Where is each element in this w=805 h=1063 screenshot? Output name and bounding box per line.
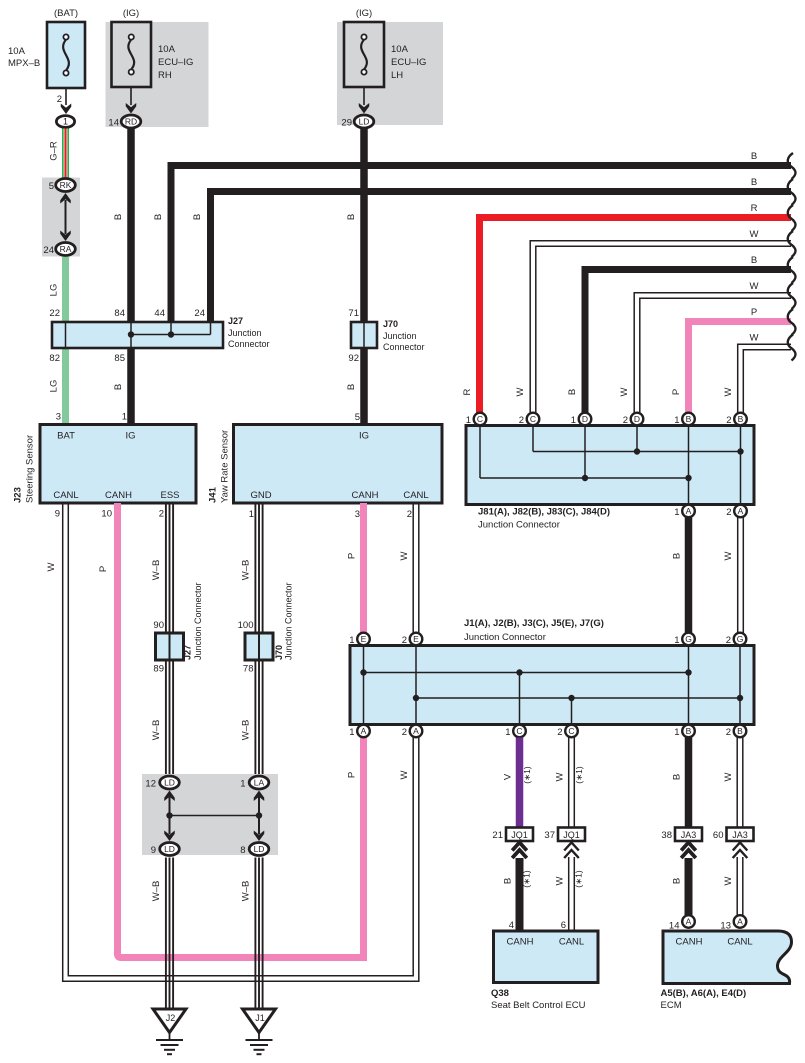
svg-text:W: W bbox=[723, 772, 734, 781]
svg-text:B: B bbox=[503, 878, 514, 884]
wire W JQ1 37 to Q38 CANL pin 6 bbox=[555, 857, 584, 931]
svg-text:B: B bbox=[567, 389, 578, 395]
wire break squiggles at right edge bbox=[788, 153, 796, 361]
svg-text:Junction Connector: Junction Connector bbox=[193, 582, 203, 660]
svg-text:W: W bbox=[555, 876, 566, 885]
wire W JA3 60 to ECM CANL pin 13A bbox=[723, 857, 743, 916]
wire W-B steering ESS pin 2 to J27 small connector bbox=[151, 503, 173, 633]
svg-text:(∗1): (∗1) bbox=[522, 870, 532, 888]
ECM pin 14 A bbox=[669, 915, 695, 931]
connector oval RD bbox=[121, 115, 141, 128]
svg-text:P: P bbox=[751, 307, 757, 318]
svg-text:P: P bbox=[98, 566, 109, 572]
svg-text:37: 37 bbox=[544, 830, 555, 841]
svg-text:LG: LG bbox=[49, 380, 60, 393]
svg-text:RH: RH bbox=[158, 70, 172, 81]
svg-text:1: 1 bbox=[571, 415, 576, 426]
svg-text:2: 2 bbox=[726, 415, 731, 426]
svg-text:B: B bbox=[113, 384, 124, 390]
connector oval LA pin 1 bbox=[240, 776, 269, 790]
svg-text:B: B bbox=[686, 726, 692, 736]
svg-text:1: 1 bbox=[505, 727, 510, 738]
svg-text:D: D bbox=[634, 414, 640, 424]
J81 pin 2B bbox=[726, 413, 747, 426]
svg-text:G: G bbox=[737, 634, 744, 644]
svg-text:E: E bbox=[413, 634, 419, 644]
svg-text:W: W bbox=[399, 551, 410, 560]
wire W-B J27 small to LD 12 bbox=[151, 660, 173, 774]
junction connector J70 small bbox=[238, 582, 294, 674]
svg-text:B: B bbox=[346, 384, 357, 390]
svg-text:Steering Sensor: Steering Sensor bbox=[25, 435, 36, 503]
svg-text:Junction Connector: Junction Connector bbox=[284, 582, 294, 660]
svg-text:W: W bbox=[619, 387, 630, 396]
arrow into JQ1 21 bbox=[512, 843, 527, 859]
junction connector J81(A) J82(B) J83(C) J84(D) bbox=[466, 426, 754, 531]
svg-text:JQ1: JQ1 bbox=[563, 830, 580, 840]
arrow into JA3 38 bbox=[681, 843, 696, 859]
svg-text:C: C bbox=[530, 414, 536, 424]
svg-text:IG: IG bbox=[125, 431, 135, 442]
svg-text:(IG): (IG) bbox=[356, 8, 372, 19]
wire B JA3 38 to ECM CANH pin 14A bbox=[672, 858, 689, 916]
svg-text:B: B bbox=[672, 774, 683, 780]
gray panel ECU-IG RH bbox=[106, 22, 209, 127]
svg-text:1: 1 bbox=[674, 415, 679, 426]
svg-text:RA: RA bbox=[60, 244, 72, 254]
svg-text:1: 1 bbox=[674, 635, 679, 646]
wire W from right edge to J81 pin 2B bbox=[723, 333, 791, 414]
svg-text:LD: LD bbox=[254, 844, 265, 854]
svg-text:C: C bbox=[568, 726, 574, 736]
J81 pin 1A bbox=[674, 505, 695, 518]
svg-text:82: 82 bbox=[49, 353, 60, 364]
svg-text:1: 1 bbox=[63, 117, 68, 127]
svg-text:2: 2 bbox=[402, 635, 407, 646]
svg-text:2: 2 bbox=[57, 94, 62, 105]
svg-text:W–B: W–B bbox=[151, 560, 162, 581]
svg-text:Junction Connector: Junction Connector bbox=[464, 632, 546, 643]
svg-text:1: 1 bbox=[122, 412, 127, 423]
svg-text:84: 84 bbox=[114, 308, 125, 319]
arrow into JA3 60 bbox=[733, 843, 748, 859]
wire B J1 pin 1B to JA3 38 bbox=[672, 738, 689, 828]
svg-text:LD: LD bbox=[164, 844, 175, 854]
svg-text:R: R bbox=[462, 388, 473, 395]
gray panel RK-RA connectors bbox=[42, 178, 80, 257]
wire P up to J1 pin 1A bbox=[347, 738, 364, 962]
svg-text:Connector: Connector bbox=[383, 342, 425, 352]
svg-text:44: 44 bbox=[154, 308, 165, 319]
svg-text:90: 90 bbox=[153, 620, 164, 631]
J81 pin 1D bbox=[571, 413, 592, 426]
wire W-B LD 8 to ground J1 bbox=[241, 858, 263, 1011]
connector oval RK pin 5 bbox=[49, 179, 76, 193]
svg-text:CANL: CANL bbox=[559, 937, 584, 948]
gray panel ECU-IG LH bbox=[337, 22, 443, 125]
svg-text:2: 2 bbox=[557, 727, 562, 738]
wire LG from J27 pin 82 to steering sensor BAT pin 3 bbox=[49, 349, 66, 424]
wire R from right edge to J81 pin 1C bbox=[462, 203, 791, 413]
svg-text:J41: J41 bbox=[208, 486, 219, 503]
wire B from LD 29 to J70 pin 71 bbox=[346, 129, 364, 322]
svg-text:Connector: Connector bbox=[228, 339, 270, 349]
svg-text:(IG): (IG) bbox=[123, 8, 139, 19]
svg-text:92: 92 bbox=[348, 353, 359, 364]
ground J2 bbox=[153, 1009, 186, 1054]
svg-text:J2: J2 bbox=[166, 1013, 176, 1023]
svg-text:ECM: ECM bbox=[661, 1000, 682, 1011]
wire fuse MPX-B to connector, pin 2 bbox=[57, 88, 72, 114]
svg-text:W–B: W–B bbox=[241, 560, 252, 581]
svg-text:A: A bbox=[737, 917, 743, 927]
svg-text:CANH: CANH bbox=[105, 490, 132, 501]
wire W J1 pin 2C to JQ1 37 bbox=[555, 738, 585, 828]
svg-text:A: A bbox=[361, 726, 367, 736]
J1 pin 2G bbox=[726, 633, 747, 646]
svg-text:LA: LA bbox=[254, 778, 265, 788]
svg-text:1: 1 bbox=[240, 779, 245, 790]
svg-text:5: 5 bbox=[49, 181, 54, 192]
svg-text:(∗1): (∗1) bbox=[574, 766, 584, 784]
arrow link RK to RA bbox=[60, 193, 71, 241]
wire B horizontal 1 to J27 pin 44 bbox=[153, 151, 791, 321]
svg-text:B: B bbox=[672, 553, 683, 559]
ECU J41 Yaw Rate Sensor bbox=[208, 425, 443, 504]
svg-text:29: 29 bbox=[341, 118, 352, 129]
svg-text:IG: IG bbox=[359, 431, 369, 442]
wire G-R from oval 1 to RK bbox=[49, 129, 67, 179]
svg-text:B: B bbox=[751, 177, 757, 188]
svg-text:100: 100 bbox=[238, 620, 254, 631]
svg-text:JA3: JA3 bbox=[681, 830, 697, 840]
svg-text:ECU–IG: ECU–IG bbox=[158, 57, 193, 68]
wire B JQ1 21 to Q38 CANH pin 4 bbox=[503, 858, 532, 931]
svg-text:A: A bbox=[738, 506, 744, 516]
svg-text:2: 2 bbox=[402, 727, 407, 738]
connector JA3 60 bbox=[713, 828, 754, 842]
wire P steering CANH to J1 pin 1A via bottom run bbox=[98, 503, 367, 958]
wire B horizontal 2 to J27 pin 24 bbox=[192, 177, 791, 321]
svg-text:B: B bbox=[751, 151, 757, 162]
svg-text:W: W bbox=[46, 562, 57, 571]
svg-text:B: B bbox=[192, 214, 203, 220]
fuse ECU-IG RH 10A (IG) bbox=[112, 8, 194, 87]
J81 pin 2C bbox=[519, 413, 540, 426]
svg-text:9: 9 bbox=[55, 509, 60, 520]
svg-text:V: V bbox=[503, 773, 514, 780]
svg-text:B: B bbox=[346, 214, 357, 220]
svg-text:89: 89 bbox=[153, 664, 164, 675]
svg-text:24: 24 bbox=[194, 308, 205, 319]
svg-text:B: B bbox=[153, 214, 164, 220]
svg-text:B: B bbox=[737, 726, 743, 736]
svg-text:CANH: CANH bbox=[507, 937, 534, 948]
wire B from RD to J27 pin 84 bbox=[113, 129, 131, 322]
svg-text:12: 12 bbox=[145, 779, 156, 790]
svg-text:W–B: W–B bbox=[151, 720, 162, 741]
svg-text:D: D bbox=[582, 414, 588, 424]
wire W yaw CANL to J1 pin 2E bbox=[399, 503, 419, 633]
svg-text:21: 21 bbox=[492, 830, 503, 841]
junction connector J70 bar bbox=[348, 308, 424, 364]
svg-text:W–B: W–B bbox=[241, 720, 252, 741]
wire LG from RA to J27 pin 22 bbox=[49, 257, 66, 321]
J1 pin 1G bbox=[674, 633, 695, 646]
svg-text:2: 2 bbox=[726, 507, 731, 518]
ECM pin 13 A bbox=[720, 915, 746, 931]
svg-text:B: B bbox=[686, 414, 692, 424]
connector JA3 38 bbox=[661, 828, 702, 842]
connector oval LD pin 12 bbox=[145, 776, 179, 790]
J81 pin 1C bbox=[466, 413, 487, 426]
svg-text:24: 24 bbox=[43, 245, 54, 256]
arrow link LA 1 to LD 8 bbox=[254, 791, 265, 842]
wire B from right edge to J81 pin 1D bbox=[567, 255, 791, 413]
svg-text:W: W bbox=[515, 387, 526, 396]
svg-text:60: 60 bbox=[713, 830, 724, 841]
svg-text:R: R bbox=[751, 203, 758, 214]
J27 pin numbers bbox=[49, 308, 205, 364]
svg-text:J1(A), J2(B), J3(C), J5(E), J7: J1(A), J2(B), J3(C), J5(E), J7(G) bbox=[464, 618, 604, 629]
J1 pin 1A bbox=[349, 725, 370, 738]
connector JQ1 37 bbox=[544, 828, 585, 842]
J81 pin 2A bbox=[726, 505, 747, 518]
svg-text:JQ1: JQ1 bbox=[511, 830, 528, 840]
J1 pin 2C bbox=[557, 725, 578, 738]
wire W-B J70 small to LA 1 bbox=[241, 660, 263, 774]
svg-text:1: 1 bbox=[674, 727, 679, 738]
svg-text:1: 1 bbox=[349, 635, 354, 646]
J1 pin 1C bbox=[505, 725, 526, 738]
J27 bar internal links bbox=[66, 323, 211, 347]
svg-text:10: 10 bbox=[101, 509, 112, 520]
svg-text:W: W bbox=[750, 281, 759, 292]
svg-text:4: 4 bbox=[509, 920, 514, 931]
wire B from J70 pin 92 to yaw rate sensor IG pin 5 bbox=[346, 349, 364, 425]
wire fuse ECU-IG LH to connector, pin 29 bbox=[341, 87, 369, 129]
wire P from right edge to J81 pin 1B bbox=[671, 307, 791, 413]
svg-text:W: W bbox=[555, 772, 566, 781]
svg-text:J70: J70 bbox=[383, 319, 398, 329]
svg-text:1: 1 bbox=[674, 507, 679, 518]
svg-text:W: W bbox=[723, 387, 734, 396]
svg-text:J27: J27 bbox=[183, 645, 193, 660]
svg-text:W: W bbox=[723, 876, 734, 885]
wire B J81 pin 1A to J1 pin 1G bbox=[672, 518, 689, 633]
svg-text:C: C bbox=[516, 726, 522, 736]
J81 pin 2D bbox=[623, 413, 644, 426]
svg-text:10A: 10A bbox=[391, 44, 409, 55]
svg-text:J23: J23 bbox=[13, 487, 24, 503]
svg-text:2: 2 bbox=[623, 415, 628, 426]
arrow link LD 12 to LD 9 with crossbar bbox=[164, 791, 262, 842]
svg-text:RK: RK bbox=[60, 180, 72, 190]
svg-text:(∗1): (∗1) bbox=[522, 766, 532, 784]
junction connector J27 small bbox=[153, 582, 203, 674]
junction connector J27 bar bbox=[52, 316, 270, 349]
svg-text:J27: J27 bbox=[228, 316, 243, 326]
svg-text:P: P bbox=[671, 389, 682, 395]
svg-text:38: 38 bbox=[661, 830, 672, 841]
svg-text:C: C bbox=[477, 414, 483, 424]
J1 pin 2B bbox=[726, 725, 747, 738]
connector oval 1 bbox=[56, 116, 74, 128]
svg-text:LD: LD bbox=[359, 117, 370, 127]
svg-text:2: 2 bbox=[159, 509, 164, 520]
svg-text:JA3: JA3 bbox=[732, 830, 748, 840]
svg-text:CANL: CANL bbox=[727, 937, 752, 948]
svg-text:9: 9 bbox=[151, 845, 156, 856]
wire W steering CANL to J1 pin 2A via bottom run bbox=[46, 503, 419, 981]
wire W J81 pin 2A to J1 pin 2G bbox=[723, 518, 743, 633]
ground J1 bbox=[243, 1009, 276, 1054]
svg-text:E: E bbox=[361, 634, 367, 644]
svg-text:B: B bbox=[751, 255, 757, 266]
svg-text:10A: 10A bbox=[8, 46, 26, 57]
svg-text:LD: LD bbox=[164, 778, 175, 788]
svg-text:J81(A), J82(B), J83(C), J84(D): J81(A), J82(B), J83(C), J84(D) bbox=[478, 507, 610, 518]
svg-text:(BAT): (BAT) bbox=[54, 8, 78, 19]
svg-text:22: 22 bbox=[49, 308, 60, 319]
svg-text:RD: RD bbox=[125, 117, 137, 127]
J1 pin 1B bbox=[674, 725, 695, 738]
wire W from right edge to J81 pin 2D bbox=[619, 281, 791, 413]
wire W-B LD 9 to ground J2 bbox=[151, 858, 173, 1011]
wire B from J27 pin 85 to steering sensor IG pin 1 bbox=[113, 349, 131, 424]
svg-text:W: W bbox=[750, 333, 759, 344]
svg-text:A: A bbox=[686, 917, 692, 927]
svg-text:W: W bbox=[750, 229, 759, 240]
svg-text:BAT: BAT bbox=[57, 431, 75, 442]
svg-text:A: A bbox=[413, 726, 419, 736]
svg-text:CANH: CANH bbox=[352, 490, 379, 501]
wire W-B yaw GND pin 1 to J70 small connector bbox=[241, 503, 263, 633]
svg-text:P: P bbox=[347, 772, 358, 778]
svg-text:W: W bbox=[399, 770, 410, 779]
ECU Q38 Seat Belt Control ECU bbox=[491, 931, 598, 1011]
svg-text:W: W bbox=[723, 551, 734, 560]
connector JQ1 21 bbox=[492, 828, 533, 842]
svg-text:W–B: W–B bbox=[241, 881, 252, 902]
svg-text:2: 2 bbox=[726, 727, 731, 738]
arrow into JQ1 37 bbox=[564, 843, 579, 859]
fuse MPX-B 10A (BAT) bbox=[8, 8, 85, 88]
svg-text:LH: LH bbox=[391, 70, 403, 81]
svg-text:2: 2 bbox=[519, 415, 524, 426]
svg-text:85: 85 bbox=[114, 353, 125, 364]
svg-text:Q38: Q38 bbox=[491, 988, 509, 999]
svg-text:A5(B), A6(A), E4(D): A5(B), A6(A), E4(D) bbox=[661, 988, 747, 999]
connector oval LD pin 9 bbox=[151, 843, 180, 857]
svg-text:78: 78 bbox=[243, 664, 254, 675]
svg-text:6: 6 bbox=[561, 920, 566, 931]
svg-text:G: G bbox=[685, 634, 692, 644]
J1 pin 1E bbox=[349, 633, 370, 646]
J81 pin 1B bbox=[674, 413, 695, 426]
svg-text:71: 71 bbox=[348, 308, 359, 319]
svg-text:3: 3 bbox=[56, 412, 61, 423]
J1 internal bus bbox=[360, 647, 743, 723]
wire W below J1 pin 2A label bbox=[399, 770, 410, 779]
svg-text:Junction: Junction bbox=[228, 328, 262, 338]
wire fuse ECU-IG RH to connector, pin 14 bbox=[108, 87, 136, 129]
svg-text:2: 2 bbox=[726, 635, 731, 646]
ECU A5(B) A6(A) E4(D) ECM bbox=[661, 931, 792, 1011]
junction connector J1(A) J2(B) J3(C) J5(E) J7(G) bbox=[350, 618, 754, 725]
svg-text:10A: 10A bbox=[158, 44, 176, 55]
connector oval LD 29 bbox=[354, 115, 374, 128]
svg-text:GND: GND bbox=[250, 490, 271, 501]
svg-text:W–B: W–B bbox=[151, 881, 162, 902]
svg-text:ESS: ESS bbox=[160, 490, 179, 501]
gray panel LD-LA connectors bbox=[142, 774, 278, 855]
connector oval RA pin 24 bbox=[43, 243, 75, 257]
svg-text:A: A bbox=[686, 506, 692, 516]
wire V J1 pin 1C to JQ1 21 bbox=[503, 738, 533, 828]
svg-text:ECU–IG: ECU–IG bbox=[391, 57, 426, 68]
svg-text:CANH: CANH bbox=[676, 937, 703, 948]
svg-text:2: 2 bbox=[407, 509, 412, 520]
svg-text:3: 3 bbox=[355, 509, 360, 520]
J81 internal bus bbox=[480, 427, 744, 503]
J1 pin 2E bbox=[402, 633, 423, 646]
svg-text:CANL: CANL bbox=[53, 490, 78, 501]
wire W J1 pin 2B to JA3 60 bbox=[723, 738, 743, 828]
svg-text:(∗1): (∗1) bbox=[574, 870, 584, 888]
svg-text:CANL: CANL bbox=[403, 490, 428, 501]
svg-text:MPX–B: MPX–B bbox=[8, 58, 40, 69]
J1 pin 2A bbox=[402, 725, 423, 738]
svg-text:Junction: Junction bbox=[383, 331, 417, 341]
svg-text:14: 14 bbox=[108, 118, 119, 129]
svg-text:Seat Belt Control ECU: Seat Belt Control ECU bbox=[491, 1000, 586, 1011]
svg-text:P: P bbox=[347, 553, 358, 559]
wire W from right edge to J81 pin 2C bbox=[515, 229, 791, 413]
svg-text:B: B bbox=[113, 214, 124, 220]
svg-text:1: 1 bbox=[349, 727, 354, 738]
svg-text:5: 5 bbox=[355, 412, 360, 423]
svg-text:J70: J70 bbox=[274, 645, 284, 660]
wire P yaw CANH to J1 pin 1E bbox=[347, 503, 364, 633]
svg-text:Yaw Rate Sensor: Yaw Rate Sensor bbox=[220, 430, 231, 503]
svg-text:B: B bbox=[738, 414, 744, 424]
connector oval LD pin 8 bbox=[240, 843, 269, 857]
svg-text:Junction Connector: Junction Connector bbox=[478, 520, 560, 531]
svg-text:1: 1 bbox=[249, 509, 254, 520]
svg-text:LG: LG bbox=[49, 284, 60, 297]
svg-text:J1: J1 bbox=[255, 1013, 265, 1023]
svg-text:1: 1 bbox=[466, 415, 471, 426]
svg-text:8: 8 bbox=[240, 845, 245, 856]
svg-text:G–R: G–R bbox=[49, 141, 60, 161]
fuse ECU-IG LH 10A (IG) bbox=[344, 8, 426, 87]
ECU J23 Steering Sensor bbox=[13, 425, 197, 504]
svg-text:B: B bbox=[672, 878, 683, 884]
